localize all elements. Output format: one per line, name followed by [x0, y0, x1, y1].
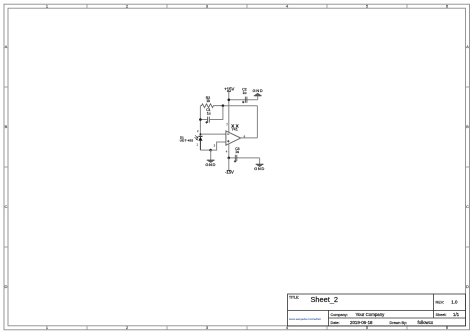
wire -15V vertical — [228, 158, 230, 170]
wire left vertical net to inverting input — [199, 106, 201, 137]
svg-text:1.0: 1.0 — [451, 300, 458, 305]
capacitor C3 polarity plus — [234, 160, 236, 162]
ground symbol GND bottom right — [256, 164, 264, 166]
svg-text:-15V: -15V — [225, 170, 234, 175]
svg-text:4: 4 — [226, 149, 228, 153]
wire feedback right vertical — [256, 106, 258, 138]
capacitor C2 plates — [245, 97, 247, 103]
junction dot negative supply — [228, 157, 231, 160]
svg-text:Sheet:: Sheet: — [436, 313, 447, 317]
svg-text:741: 741 — [232, 127, 238, 131]
svg-text:TITLE:: TITLE: — [289, 295, 299, 299]
ground symbol GND top right (flipped) — [254, 93, 262, 96]
svg-text:Your Company: Your Company — [356, 312, 386, 317]
border zone ticks right — [466, 87, 470, 247]
junction dot C1 left — [199, 118, 202, 121]
svg-text:B: B — [5, 124, 8, 129]
wire negative supply branch — [229, 157, 260, 159]
junction dot ground node — [209, 149, 212, 152]
svg-text:A: A — [466, 44, 469, 49]
border zone ticks bottom — [87, 326, 407, 330]
border zone ticks left — [4, 87, 8, 247]
svg-text:Drawn By:: Drawn By: — [390, 321, 408, 325]
capacitor C1 plates — [208, 117, 210, 123]
border zone letters right — [466, 44, 469, 289]
svg-text:REV:: REV: — [436, 301, 445, 305]
svg-text:1k: 1k — [206, 99, 210, 103]
wire C1 branch right — [209, 106, 223, 120]
wire supply branch to C2 and GND — [229, 99, 258, 101]
svg-text:D: D — [5, 284, 8, 289]
ground symbol GND left — [207, 160, 215, 162]
junction dot supply branch — [228, 99, 231, 102]
capacitor C3 plates — [235, 155, 237, 161]
title block frame — [288, 294, 466, 326]
svg-text:D: D — [466, 284, 469, 289]
svg-text:C: C — [5, 204, 8, 209]
wire inverting input — [200, 133, 226, 135]
wire feedback top — [223, 105, 258, 107]
border zone numbers top — [46, 4, 449, 9]
photodiode D1 light arrows — [195, 135, 199, 140]
wire GND stub left — [210, 150, 212, 160]
svg-text:1: 1 — [197, 143, 199, 147]
svg-text:followcx: followcx — [418, 320, 434, 325]
svg-text:UDT-455: UDT-455 — [180, 139, 194, 143]
svg-text:GND: GND — [205, 162, 216, 167]
wire C1 branch left — [200, 119, 207, 121]
junction dot feedback node — [222, 104, 225, 107]
wire anode to ground node — [200, 149, 210, 151]
svg-text:2: 2 — [197, 129, 199, 133]
svg-text:2019-06-18: 2019-06-18 — [350, 320, 373, 325]
svg-text:3: 3 — [214, 144, 216, 148]
svg-text:Date:: Date: — [331, 321, 340, 325]
svg-text:1u: 1u — [207, 111, 211, 115]
border zone ticks top — [87, 4, 407, 8]
border zone letters left — [5, 44, 8, 289]
svg-text:GND: GND — [254, 166, 265, 171]
svg-text:B: B — [466, 124, 469, 129]
svg-text:+15V: +15V — [224, 86, 234, 91]
wire op-amp output — [241, 137, 258, 139]
svg-text:www.easyeda.com/editor: www.easyeda.com/editor — [289, 317, 321, 321]
svg-text:A: A — [5, 44, 8, 49]
border zone numbers bottom — [46, 325, 449, 330]
svg-text:Company:: Company: — [331, 313, 348, 317]
svg-text:Sheet_2: Sheet_2 — [311, 295, 339, 304]
wire non-inverting input — [211, 142, 226, 150]
wire GND stub top right — [257, 96, 259, 100]
svg-text:GND: GND — [253, 88, 264, 93]
wire GND stub bottom right — [259, 158, 261, 164]
svg-text:1/1: 1/1 — [453, 312, 460, 317]
svg-text:1u: 1u — [243, 91, 247, 95]
wire +15V vertical to op-amp pin 7 — [228, 92, 230, 133]
power flag +15V — [224, 86, 234, 91]
wire op-amp pin 4 down — [228, 144, 230, 158]
power flag -15V — [225, 170, 234, 175]
svg-text:C: C — [466, 204, 469, 209]
svg-text:7: 7 — [226, 123, 228, 127]
svg-text:1u: 1u — [235, 150, 239, 154]
photodiode D1 — [198, 136, 202, 150]
capacitor C2 polarity plus — [242, 101, 244, 103]
junction dot inverting node — [200, 133, 202, 135]
resistor R2 — [200, 104, 223, 108]
capacitor C1 polarity plus — [205, 121, 207, 123]
op-amp U1 — [226, 131, 241, 145]
